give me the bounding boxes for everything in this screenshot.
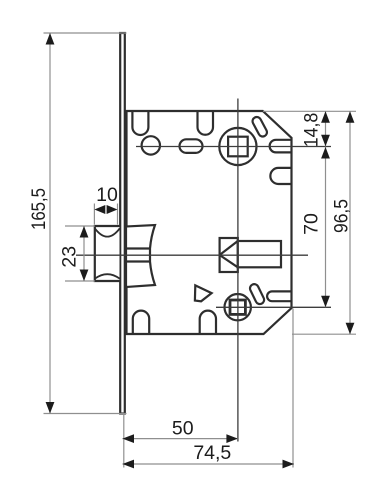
deadbolt tail: [238, 241, 281, 267]
svg-text:14,8: 14,8: [300, 113, 322, 148]
dimension line 165,5: [49, 33, 51, 414]
right edge slot 2: [270, 168, 291, 184]
bottom notch 1: [133, 311, 149, 334]
extension line top right: [263, 110, 356, 112]
latch block band bottom: [126, 260, 150, 262]
dimension line 23: [83, 226, 85, 281]
centerline vertical spindle: [237, 99, 239, 442]
svg-text:165,5: 165,5: [28, 188, 50, 230]
svg-text:23: 23: [58, 246, 80, 268]
deadbolt diagonals: [220, 241, 238, 267]
arrow right 10: [107, 205, 118, 214]
extension line body right down: [292, 309, 294, 468]
arrow down 165,5: [46, 402, 55, 414]
arrow left 10: [94, 205, 105, 214]
latch follower block: [126, 225, 155, 287]
arrow down 14,8: [321, 135, 330, 147]
spindle square hole: [228, 137, 248, 157]
label 70: [301, 213, 323, 235]
svg-text:74,5: 74,5: [193, 442, 231, 464]
lower spindle square: [230, 300, 245, 314]
arrow up 23: [80, 226, 89, 238]
arrow left 74,5: [123, 460, 135, 469]
top notch 1: [132, 111, 148, 135]
lock body outline: [127, 111, 292, 334]
latch bolt bottom arc: [95, 274, 120, 279]
dimension line 50: [123, 438, 238, 440]
extension line faceplate down: [123, 415, 125, 468]
right edge slot 1: [270, 140, 292, 153]
label 96,5: [331, 199, 353, 233]
centerline latch horizontal: [76, 254, 308, 256]
extension lines 10: [93, 204, 95, 225]
extension line bottom right: [292, 333, 356, 335]
dimension line 14,8: [325, 111, 327, 146]
arrow down 70: [321, 296, 330, 308]
arrow right 74,5: [283, 460, 295, 469]
lower spindle circle: [225, 294, 251, 320]
centerline spindle horizontal: [136, 146, 331, 148]
label 14,8: [300, 113, 322, 148]
right edge slot 3: [267, 291, 291, 301]
centerline lower hole horizontal: [216, 306, 331, 308]
arrow left 50: [123, 434, 135, 443]
svg-text:10: 10: [96, 184, 118, 206]
oval slot: [180, 139, 203, 153]
faceplate: [120, 33, 125, 414]
dimension line 74,5: [123, 463, 295, 465]
extension line bottom left: [44, 413, 127, 415]
small quad cam: [195, 285, 212, 301]
extension lines 23: [65, 225, 95, 227]
top notch 2: [198, 111, 214, 135]
latch bolt top arc: [95, 228, 120, 236]
arrow up 14,8: [321, 111, 330, 123]
angled slot upper: [251, 115, 268, 138]
label 23: [58, 246, 80, 268]
arrow up 70: [321, 147, 330, 159]
deadbolt head: [220, 238, 238, 272]
spindle circle: [219, 128, 256, 165]
dimension line 96,5: [349, 111, 351, 334]
arrow right 50: [226, 434, 238, 443]
latch block band top: [126, 247, 150, 249]
latch bolt: [95, 226, 120, 281]
extension line top left: [44, 32, 127, 34]
arrow down 96,5: [346, 323, 355, 335]
dimension line 70: [325, 147, 327, 307]
angled slot lower: [249, 283, 266, 306]
bottom notch 2: [200, 311, 216, 334]
latch bolt outline: [95, 226, 120, 281]
arrow up 165,5: [46, 33, 55, 45]
label 165,5: [28, 188, 50, 230]
svg-text:70: 70: [301, 213, 323, 235]
arrow up 96,5: [346, 111, 355, 123]
svg-text:96,5: 96,5: [331, 199, 353, 233]
svg-text:50: 50: [172, 417, 194, 439]
arrow down 23: [80, 270, 89, 282]
small hole: [142, 136, 160, 154]
